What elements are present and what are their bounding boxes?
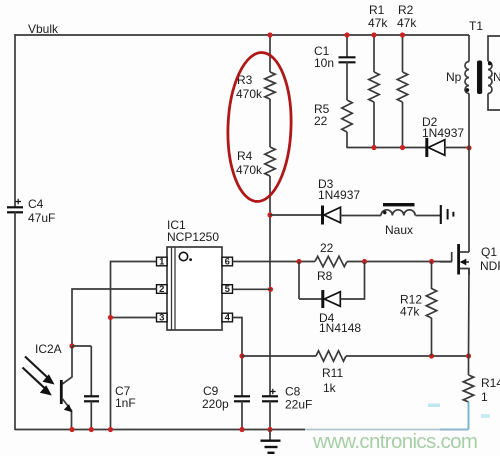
- resistor R12: [426, 289, 436, 319]
- svg-text:5: 5: [225, 284, 231, 295]
- junction source/CS bus: [466, 353, 471, 358]
- svg-text:3: 3: [159, 313, 164, 324]
- IC1 pin 1: [157, 257, 168, 266]
- junction R8-left/D4: [296, 259, 301, 264]
- resistor R3: [265, 72, 275, 99]
- junction C8/ground rail: [267, 427, 272, 432]
- resistor R4: [265, 147, 275, 176]
- junction opto emitter/ground rail: [69, 427, 74, 432]
- capacitor C8: [262, 395, 278, 397]
- transistor Q1 channel bar: [457, 244, 460, 275]
- IC1 pin 2: [157, 285, 168, 294]
- svg-text:R2: R2: [398, 3, 414, 17]
- svg-text:47uF: 47uF: [28, 211, 55, 225]
- wire bottom ground rail: [15, 429, 305, 431]
- wire R2 bottom lead: [402, 102, 404, 148]
- wire CS bus right: [346, 355, 469, 357]
- svg-text:22: 22: [314, 114, 328, 128]
- svg-text:47k: 47k: [400, 305, 420, 319]
- transistor Q1 body arrow: [461, 261, 469, 263]
- svg-text:22uF: 22uF: [285, 398, 312, 412]
- wire left border lower (C4 to ground rail): [14, 212, 16, 430]
- svg-text:R11: R11: [322, 366, 343, 380]
- wire C7 bottom lead: [90, 401, 92, 430]
- svg-text:Naux: Naux: [385, 223, 413, 237]
- wire R8 to gate: [347, 261, 452, 263]
- inductor Naux core bar: [383, 203, 415, 206]
- svg-text:T1: T1: [469, 19, 483, 33]
- wire R12 top lead: [431, 262, 433, 290]
- wire D4 to diode: [299, 298, 322, 300]
- svg-text:C8: C8: [285, 385, 301, 399]
- svg-text:R14: R14: [481, 376, 500, 390]
- junction divider/D3 branch: [267, 212, 272, 217]
- wire left border upper (Vbulk to C4): [14, 34, 16, 207]
- connector bar long: [440, 205, 442, 224]
- junction D2/drain line: [466, 145, 471, 150]
- transistor IC2A emitter wire: [62, 398, 72, 430]
- svg-text:1nF: 1nF: [115, 396, 136, 410]
- svg-text:1k: 1k: [323, 381, 337, 395]
- resistor R5: [342, 100, 352, 132]
- svg-text:1N4937: 1N4937: [318, 188, 360, 202]
- wire R1 top lead: [373, 35, 375, 72]
- wire secondary bottom: [488, 94, 500, 111]
- wire R5 bottom lead: [346, 132, 348, 148]
- capacitor C9: [234, 395, 250, 397]
- junction R1/top rail: [371, 32, 376, 37]
- wire Vbulk top rail: [15, 34, 469, 36]
- wire divider top lead: [269, 35, 271, 72]
- transformer T1 secondary winding Ns: [488, 62, 492, 94]
- wire R12 bottom lead: [431, 318, 433, 356]
- svg-text:R1: R1: [369, 3, 385, 17]
- wire source to R14: [468, 356, 470, 375]
- wire C8 bottom lead: [269, 401, 271, 430]
- phase dot primary: [465, 88, 469, 92]
- svg-text:6: 6: [225, 257, 230, 268]
- svg-text:C4: C4: [28, 197, 44, 211]
- diode D3: [321, 206, 324, 225]
- artifact cyan smudge: [428, 404, 440, 408]
- transistor IC2A bar: [60, 380, 63, 404]
- resistor R2: [397, 72, 407, 102]
- svg-text:220p: 220p: [202, 397, 229, 411]
- wire secondary top: [488, 36, 500, 62]
- transistor Q1 gate lead: [451, 252, 453, 262]
- wire R2 top lead: [402, 35, 404, 72]
- wire pin2 to opto: [72, 289, 157, 346]
- junction pin4 branch/CS bus: [239, 353, 244, 358]
- svg-text:47k: 47k: [368, 16, 388, 30]
- wire D4 right leg: [340, 262, 364, 300]
- wire Q1 source down: [468, 269, 471, 357]
- wire D4 left leg: [298, 262, 300, 300]
- junction R1/bus: [371, 145, 376, 150]
- wire pin3 to ground branch: [111, 317, 157, 319]
- junction pin1 branch/ground rail: [108, 427, 113, 432]
- svg-text:10n: 10n: [314, 56, 334, 70]
- svg-text:Q1: Q1: [481, 245, 497, 259]
- wire D2 anode to drain: [444, 147, 469, 149]
- svg-text:22: 22: [320, 241, 334, 255]
- svg-text:1: 1: [481, 390, 488, 404]
- junction R2/top rail: [400, 32, 405, 37]
- resistor R14: [463, 375, 473, 402]
- IC1 pin 4: [222, 313, 233, 322]
- wire Naux to Vcc connector: [416, 215, 441, 217]
- junction C1 branch/top rail: [344, 32, 349, 37]
- connector stub: [452, 212, 454, 217]
- svg-text:www.cntronics.com: www.cntronics.com: [312, 430, 478, 453]
- wire bottom ground rail right (watermark tinted): [305, 429, 440, 431]
- wire D3 anode to Naux: [340, 215, 382, 217]
- annotation red ellipse: [225, 51, 293, 202]
- junction C7/ground rail: [89, 427, 94, 432]
- svg-text:NCP1250: NCP1250: [167, 230, 219, 244]
- junction pin1/pin3 branch: [108, 315, 113, 320]
- wire CS bus left: [242, 355, 316, 357]
- svg-text:1N4937: 1N4937: [422, 126, 464, 140]
- resistor R1: [369, 72, 379, 102]
- junction pin2/opto/C7 node: [69, 343, 74, 348]
- wire pin1 to ground branch: [111, 262, 157, 430]
- op-amp U1 body (IC1 NCP1250): [167, 247, 222, 330]
- diode D2: [425, 138, 428, 157]
- svg-text:NDFL: NDFL: [480, 259, 500, 273]
- wire primary bottom / Q1 drain: [468, 94, 470, 253]
- inductor Naux winding: [381, 210, 415, 216]
- svg-text:1N4148: 1N4148: [319, 321, 361, 335]
- wire C7 top lead: [90, 346, 92, 396]
- svg-text:IC2A: IC2A: [35, 342, 62, 356]
- svg-text:2: 2: [159, 284, 164, 295]
- light arrow 1: [25, 357, 47, 378]
- IC1 pin 6: [222, 257, 233, 266]
- phase dot Naux: [383, 211, 386, 214]
- svg-text:R8: R8: [317, 269, 333, 283]
- svg-text:1: 1: [159, 257, 165, 268]
- IC1 pin 5: [222, 285, 233, 294]
- junction C9/ground rail: [239, 427, 244, 432]
- wire divider middle lead: [269, 99, 271, 147]
- svg-text:470k: 470k: [236, 163, 263, 177]
- wire C1 branch top lead: [346, 35, 348, 57]
- wire C1-R5 lead: [346, 62, 348, 100]
- svg-text:R4: R4: [237, 149, 253, 163]
- svg-text:470k: 470k: [236, 87, 263, 101]
- junction R8-right/D4: [362, 259, 367, 264]
- light arrow 2: [23, 368, 45, 389]
- wire R1 bottom lead: [373, 102, 375, 148]
- svg-text:C9: C9: [203, 384, 219, 398]
- capacitor C4: [7, 206, 23, 208]
- wire primary top lead: [468, 35, 470, 62]
- wire pin4 to C9 branch: [233, 318, 243, 397]
- connector bar short: [447, 209, 449, 220]
- junction divider/top rail: [267, 32, 272, 37]
- wire R5/R1/R2 bottom bus: [347, 147, 426, 149]
- resistor R8: [315, 256, 347, 266]
- transistor IC2A emitter arrowhead: [64, 404, 73, 412]
- ground: [269, 430, 271, 441]
- capacitor C7: [84, 395, 99, 397]
- resistor R11: [316, 351, 346, 361]
- wire divider lower lead: [269, 176, 271, 396]
- svg-text:Ns: Ns: [493, 70, 500, 84]
- transistor IC2A collector wire: [62, 346, 72, 384]
- wire opto node to C7: [72, 345, 91, 347]
- IC1 pin 3: [157, 313, 168, 322]
- svg-text:Vbulk: Vbulk: [28, 22, 59, 36]
- junction divider/pin5: [268, 287, 273, 292]
- junction gate/R12: [429, 259, 434, 264]
- transistor Q1 source stub: [460, 269, 470, 276]
- capacitor C1: [339, 56, 356, 58]
- diode D4: [321, 290, 324, 308]
- junction R12/CS bus: [429, 353, 434, 358]
- phase dot secondary: [488, 62, 492, 66]
- transformer core: [477, 61, 482, 95]
- svg-text:47k: 47k: [397, 16, 417, 30]
- wire pin6 to R8: [233, 261, 316, 263]
- wire divider to D3: [270, 214, 322, 216]
- wire R14 bottom lead (tinted): [468, 402, 470, 430]
- junction R2/bus: [400, 145, 405, 150]
- svg-text:Np: Np: [446, 70, 462, 84]
- transistor Q1 drain stub: [460, 251, 470, 253]
- wire C9 bottom lead: [241, 401, 243, 430]
- IC1 pin-1 indicator circle: [179, 252, 187, 260]
- transformer T1 primary winding Np: [465, 62, 469, 94]
- svg-text:4: 4: [225, 313, 231, 324]
- wire pin5 to divider: [233, 288, 272, 290]
